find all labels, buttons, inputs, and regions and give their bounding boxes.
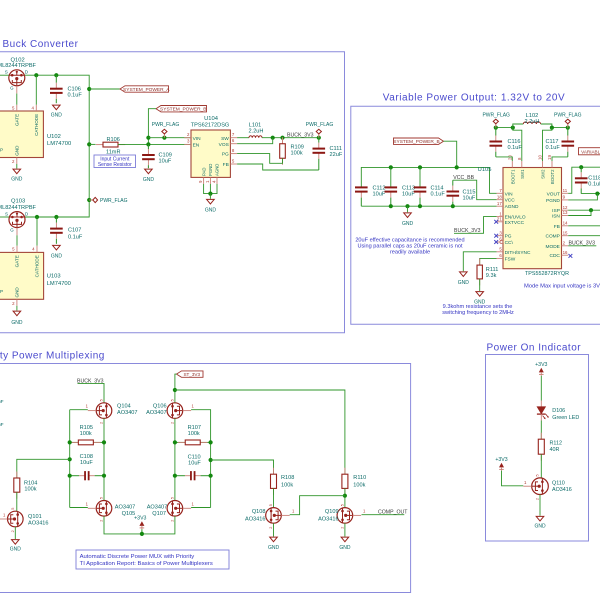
- svg-text:PWR_FLAG: PWR_FLAG: [554, 112, 582, 118]
- wire LED to R112: [540, 414, 542, 420]
- wire ISN jog: [568, 210, 591, 215]
- svg-text:100k: 100k: [188, 431, 200, 437]
- svg-text:13: 13: [563, 210, 568, 215]
- svg-text:L102: L102: [526, 113, 538, 119]
- ground DITH: [460, 272, 468, 277]
- svg-text:TI Application Report: Basics: TI Application Report: Basics of Power M…: [80, 561, 213, 567]
- svg-text:C116: C116: [508, 139, 521, 145]
- wire R106 to EN: [118, 143, 191, 145]
- resistor R112 40R: [540, 433, 542, 440]
- node gnd drop: [405, 204, 409, 208]
- svg-text:ISN: ISN: [552, 214, 561, 220]
- wire SW2 jog: [543, 128, 552, 161]
- svg-text:EXTVCC: EXTVCC: [505, 220, 525, 226]
- svg-text:5: 5: [171, 399, 175, 401]
- svg-text:Q102: Q102: [11, 57, 25, 63]
- capacitor C109: [147, 144, 149, 149]
- svg-text:+3V3: +3V3: [495, 457, 507, 463]
- ground R111: [476, 292, 484, 297]
- note Automatic Discrete Power MUX: [76, 550, 229, 569]
- svg-text:SYSTEM_POWER_A: SYSTEM_POWER_A: [123, 87, 170, 93]
- capacitor C110: [175, 475, 185, 477]
- svg-text:0.1uF: 0.1uF: [588, 181, 600, 187]
- svg-text:100k: 100k: [24, 486, 36, 492]
- wire R105 right: [93, 441, 104, 443]
- global label SYSTEM_POWER_B: [156, 106, 207, 112]
- wire node SW right: [552, 127, 568, 129]
- resistor R108 100k: [273, 468, 275, 475]
- svg-text:11mR: 11mR: [106, 149, 121, 155]
- node tap R108: [209, 458, 213, 462]
- svg-text:20uF effective capacitance is: 20uF effective capacitance is recommende…: [355, 237, 464, 243]
- wire COMP out: [568, 235, 600, 237]
- svg-text:C107: C107: [68, 228, 81, 234]
- svg-text:C118: C118: [588, 175, 600, 181]
- svg-text:5: 5: [341, 504, 345, 506]
- svg-text:17: 17: [497, 201, 502, 206]
- svg-text:2: 2: [269, 527, 273, 529]
- svg-text:2: 2: [100, 520, 104, 522]
- node ST_3V3: [173, 388, 177, 392]
- svg-text:S: S: [5, 212, 8, 217]
- svg-text:VIN: VIN: [505, 191, 514, 197]
- wire Q107 gate: [191, 507, 211, 509]
- ground Q110: [536, 516, 544, 521]
- wire to SYSTEM_POWER_A: [89, 88, 120, 90]
- wire Q105 gate: [70, 507, 88, 509]
- node C108 right: [102, 474, 106, 478]
- svg-text:C117: C117: [546, 139, 559, 145]
- resistor R111 9.3k: [479, 259, 481, 266]
- node C110 left: [173, 474, 177, 478]
- node C110 right: [209, 474, 213, 478]
- svg-text:GND: GND: [14, 145, 19, 156]
- svg-text:100k: 100k: [353, 483, 365, 489]
- transistor Q103: [9, 212, 25, 228]
- svg-text:12: 12: [563, 205, 568, 210]
- svg-text:uF: uF: [0, 399, 4, 405]
- no-connect EXTVCC: [494, 220, 498, 224]
- svg-text:VIN: VIN: [193, 136, 202, 142]
- svg-text:C110: C110: [188, 455, 201, 461]
- wire VOUT to out rail: [568, 167, 600, 193]
- svg-text:2.2uH: 2.2uH: [525, 119, 540, 125]
- svg-text:LM74700: LM74700: [47, 281, 71, 287]
- svg-text:0.1uF: 0.1uF: [508, 145, 523, 151]
- wire R112 to Q110: [540, 454, 542, 477]
- svg-text:Q107: Q107: [152, 511, 166, 517]
- resistor R105 100k: [71, 441, 78, 443]
- svg-text:Mode Max input voltage is 3V3: Mode Max input voltage is 3V3: [524, 284, 600, 290]
- wire input cap bus bottom: [361, 205, 496, 207]
- wire BUCK_3V3 to Q104: [78, 383, 105, 402]
- capacitor C118: [580, 167, 582, 172]
- wire Q108 source: [273, 523, 275, 536]
- svg-text:100k: 100k: [291, 151, 303, 157]
- svg-text:18: 18: [497, 194, 502, 199]
- wire Q106 gate: [191, 410, 211, 443]
- wire DITH/SYNC to gnd: [463, 252, 496, 271]
- svg-text:GND: GND: [11, 177, 23, 183]
- svg-text:2: 2: [11, 530, 15, 532]
- svg-text:Variable Power Output: 1.32V t: Variable Power Output: 1.32V to 20V: [383, 92, 566, 103]
- capacitor C117: [567, 128, 569, 136]
- wire R105 left: [70, 441, 79, 443]
- node Q103 drain C107: [54, 215, 58, 219]
- svg-text:PWR_FLAG: PWR_FLAG: [152, 122, 180, 128]
- wire Q104 gate: [70, 409, 88, 411]
- wire R108 to Q108: [273, 488, 275, 507]
- wire R104 to Q101: [16, 492, 18, 511]
- wire R107 right: [200, 441, 210, 443]
- svg-text:10uF: 10uF: [80, 460, 93, 466]
- svg-text:5: 5: [536, 474, 540, 476]
- svg-text:9.3kohm resistance sets the: 9.3kohm resistance sets the: [443, 304, 513, 310]
- resistor R107 100k: [178, 441, 185, 443]
- svg-text:FSW: FSW: [505, 256, 516, 262]
- resistor R110 100k: [344, 468, 346, 475]
- svg-text:ST_3V3: ST_3V3: [183, 372, 200, 377]
- global label SYSTEM_POWER_A: [120, 86, 169, 92]
- svg-text:5: 5: [100, 497, 104, 499]
- svg-text:0.1uF: 0.1uF: [546, 145, 561, 151]
- node ISP: [589, 208, 593, 212]
- svg-text:10uF: 10uF: [159, 159, 172, 165]
- svg-text:GND: GND: [458, 280, 470, 286]
- svg-text:R106: R106: [107, 137, 120, 143]
- svg-text:AO3416: AO3416: [552, 487, 572, 493]
- svg-text:FML8244TRPBF: FML8244TRPBF: [0, 63, 37, 69]
- svg-text:10uF: 10uF: [188, 461, 201, 467]
- svg-text:FB: FB: [554, 224, 560, 230]
- svg-text:AO3407: AO3407: [117, 410, 138, 416]
- wire node SW left: [496, 127, 513, 129]
- capacitor C114: [419, 167, 421, 186]
- svg-text:AO3407: AO3407: [147, 504, 168, 510]
- node R105 right: [102, 440, 106, 444]
- svg-text:Automatic Discrete Power MUX w: Automatic Discrete Power MUX with Priori…: [80, 554, 195, 560]
- ground C106: [53, 105, 61, 110]
- svg-text:FML8244TRPBF: FML8244TRPBF: [0, 205, 37, 211]
- svg-text:11: 11: [563, 188, 568, 193]
- node +3V3: [140, 532, 144, 536]
- svg-text:SYSTEM_POWER_B: SYSTEM_POWER_B: [393, 139, 439, 145]
- svg-text:C108: C108: [80, 454, 93, 460]
- svg-text:22uF: 22uF: [330, 152, 343, 158]
- svg-text:AO3407: AO3407: [115, 504, 136, 510]
- node pwr flag right: [566, 126, 570, 130]
- node C114 bottom: [418, 204, 422, 208]
- svg-text:BOOT1: BOOT1: [511, 169, 516, 184]
- svg-text:SW1: SW1: [520, 169, 525, 179]
- svg-text:GND: GND: [15, 287, 20, 298]
- svg-text:U102: U102: [47, 134, 61, 140]
- svg-text:GND: GND: [268, 545, 280, 551]
- power flag VIN: [163, 134, 165, 138]
- wire tap to R108: [211, 460, 274, 474]
- svg-text:9.3k: 9.3k: [486, 273, 497, 279]
- wire MODE: [568, 245, 596, 247]
- node VOS tap: [271, 136, 275, 140]
- wire common source: [104, 516, 175, 534]
- svg-text:GND: GND: [10, 547, 22, 553]
- wire R107 left: [175, 441, 185, 443]
- svg-text:CATHODE: CATHODE: [34, 114, 39, 136]
- svg-text:Q108: Q108: [252, 509, 266, 515]
- svg-text:GND: GND: [534, 524, 546, 530]
- svg-text:GND: GND: [402, 221, 414, 227]
- wire Q110 source: [539, 495, 541, 516]
- svg-text:EN: EN: [193, 143, 200, 149]
- svg-text:CC\: CC\: [505, 240, 514, 246]
- svg-text:DITH/SYNC: DITH/SYNC: [505, 250, 531, 256]
- svg-text:G: G: [10, 86, 14, 91]
- ground U104: [207, 199, 215, 204]
- wire drain rail left: [103, 418, 105, 500]
- svg-text:VOS: VOS: [219, 142, 229, 148]
- node R107 right: [209, 440, 213, 444]
- svg-text:R104: R104: [24, 480, 37, 486]
- svg-text:GND: GND: [205, 208, 217, 214]
- ground Q109: [341, 537, 349, 542]
- node C114 top: [418, 165, 422, 169]
- svg-text:Q110: Q110: [552, 480, 565, 486]
- IC U102 LM74700: [0, 111, 43, 158]
- node PWR_FLAG rail: [87, 198, 91, 202]
- wire +3V3 to LED: [540, 376, 542, 401]
- svg-text:19: 19: [547, 155, 552, 160]
- svg-text:AO3407: AO3407: [146, 410, 167, 416]
- wire C116 to BOOT1: [496, 157, 513, 161]
- svg-text:Sense Resistor: Sense Resistor: [98, 162, 132, 168]
- svg-text:switching frequency to 2MHz: switching frequency to 2MHz: [442, 310, 514, 316]
- svg-text:Q101: Q101: [28, 514, 42, 520]
- svg-text:AO3416: AO3416: [28, 520, 49, 526]
- node tap R104: [68, 457, 72, 461]
- svg-text:100k: 100k: [281, 483, 293, 489]
- svg-text:C112: C112: [373, 185, 386, 191]
- svg-text:GND: GND: [339, 545, 351, 551]
- svg-text:PWR_FLAG: PWR_FLAG: [482, 112, 510, 118]
- section Power Multiplexing box: [0, 364, 411, 593]
- node C118 top: [579, 165, 583, 169]
- wire ISP: [568, 209, 600, 211]
- svg-text:14: 14: [563, 221, 568, 226]
- power flag L102 left: [495, 124, 497, 128]
- wire Q103 gate: [16, 235, 18, 246]
- node C115 bottom: [451, 204, 455, 208]
- ground Q101: [12, 540, 20, 545]
- ground U103: [16, 306, 18, 311]
- svg-text:P: P: [0, 289, 3, 294]
- wire Q103 source: [0, 216, 9, 218]
- wire drain rail right: [174, 418, 176, 500]
- svg-text:ISP: ISP: [552, 208, 560, 214]
- svg-text:10uF: 10uF: [373, 191, 386, 197]
- svg-text:AGND: AGND: [215, 164, 220, 176]
- svg-text:0.1uF: 0.1uF: [68, 93, 83, 99]
- wire VOS feedback: [237, 138, 273, 144]
- IC U103 LM74700: [0, 252, 44, 299]
- svg-text:GATE: GATE: [15, 255, 20, 267]
- ground C107: [53, 245, 61, 250]
- capacitor C112: [360, 186, 362, 188]
- no-connect CDC: [569, 254, 573, 258]
- svg-text:C114: C114: [431, 185, 444, 191]
- svg-text:Priority Power Multiplexing: Priority Power Multiplexing: [0, 351, 105, 362]
- wire L101 to BUCK_3V3 node: [262, 137, 319, 139]
- node Q108 gate tap: [343, 494, 347, 498]
- capacitor C111 22uF: [318, 138, 320, 143]
- svg-text:AO3416: AO3416: [245, 517, 266, 523]
- wire ST_3V3 rail to R110: [175, 390, 345, 474]
- svg-text:Green LED: Green LED: [552, 415, 579, 421]
- wire Q102 gate: [16, 94, 18, 105]
- svg-text:COMP_OUT: COMP_OUT: [378, 509, 408, 515]
- svg-text:100k: 100k: [80, 431, 92, 437]
- svg-text:Power On Indicator: Power On Indicator: [487, 342, 582, 353]
- svg-text:GND: GND: [143, 177, 155, 183]
- wire Q102 source: [0, 74, 9, 76]
- node R106 tap: [87, 142, 91, 146]
- node R107 left: [173, 440, 177, 444]
- power flag BUCK_3V3: [318, 134, 320, 138]
- wire BUCK_3V3 to EN/UVLO: [454, 217, 497, 234]
- inductor L101 2.2uH: [249, 136, 262, 138]
- svg-text:PG: PG: [222, 152, 229, 158]
- svg-text:16: 16: [563, 250, 568, 255]
- node PWR_FLAG VIN: [162, 136, 166, 140]
- svg-text:+3V3: +3V3: [535, 362, 547, 368]
- power flag PWR_FLAG rail: [89, 199, 92, 201]
- svg-text:10: 10: [538, 155, 543, 160]
- svg-text:TPS552872RYQR: TPS552872RYQR: [525, 271, 569, 277]
- svg-text:2: 2: [536, 498, 540, 500]
- wire +3V3 to Q110 gate: [502, 471, 524, 486]
- svg-text:L101: L101: [249, 122, 261, 128]
- svg-text:S: S: [5, 70, 8, 75]
- svg-text:Q109: Q109: [325, 509, 339, 515]
- section Buck Converter box: [0, 52, 345, 333]
- wire U104 grounds: [204, 184, 217, 194]
- ground C109: [145, 169, 153, 174]
- capacitor C113: [390, 167, 392, 186]
- svg-text:Buck Converter: Buck Converter: [3, 39, 79, 50]
- svg-text:BOOT2: BOOT2: [550, 169, 555, 184]
- svg-text:TPS62172DSG: TPS62172DSG: [191, 122, 230, 128]
- node sysb bus: [455, 165, 459, 169]
- svg-text:R109: R109: [291, 145, 304, 151]
- wire R110 to Q109: [344, 488, 346, 507]
- svg-text:GND: GND: [51, 254, 63, 260]
- resistor R104 100k: [16, 472, 18, 479]
- svg-text:SW: SW: [221, 136, 229, 142]
- svg-text:P: P: [0, 148, 3, 153]
- wire SW to inductor: [237, 137, 249, 139]
- global label SYSTEM_POWER_B var: [394, 138, 444, 144]
- svg-text:AGND: AGND: [505, 204, 519, 210]
- svg-text:R105: R105: [80, 425, 93, 431]
- svg-text:U104: U104: [204, 116, 219, 122]
- wire SYSTEM_POWER_B to bus: [444, 141, 457, 167]
- wire gnd drop: [407, 206, 409, 212]
- svg-text:U105: U105: [478, 167, 492, 173]
- node drain-cathode: [34, 73, 38, 77]
- svg-text:2: 2: [171, 520, 175, 522]
- wire FB out: [568, 225, 600, 227]
- svg-text:PGND: PGND: [546, 198, 560, 204]
- wire SW1 jog: [513, 128, 522, 161]
- resistor R106 11mR: [96, 144, 103, 146]
- wire PGND: [568, 194, 597, 200]
- svg-text:5: 5: [11, 508, 15, 510]
- global label ST_3V3: [177, 371, 204, 377]
- capacitor C106: [55, 75, 57, 83]
- node U104 gnd: [208, 192, 212, 196]
- wire gate rail right: [210, 442, 212, 507]
- svg-text:FB: FB: [223, 162, 229, 168]
- svg-text:PG: PG: [505, 234, 512, 240]
- IC U105 TPS552872RYQR: [503, 168, 562, 269]
- svg-text:VCC: VCC: [505, 198, 516, 204]
- svg-text:SW2: SW2: [541, 169, 546, 179]
- wire R109 to PG: [237, 154, 282, 164]
- svg-text:CATHODE: CATHODE: [35, 255, 40, 277]
- resistor R109 100k: [282, 138, 284, 144]
- svg-text:R110: R110: [353, 475, 366, 481]
- svg-text:10uF: 10uF: [463, 195, 476, 201]
- node boot riser right: [550, 126, 554, 130]
- wire Q101 source: [14, 527, 16, 539]
- svg-text:0.1uF: 0.1uF: [68, 235, 83, 241]
- svg-text:40R: 40R: [550, 447, 560, 453]
- svg-text:VARIABLE: VARIABLE: [581, 150, 600, 155]
- node SYSTEM_POWER_A tap: [87, 87, 91, 91]
- node C113 bottom: [389, 204, 393, 208]
- inductor L102 2.2uH: [513, 124, 524, 128]
- svg-text:GND: GND: [11, 320, 23, 326]
- capacitor C108: [70, 475, 79, 477]
- node R109 top: [280, 136, 284, 140]
- node PGND riser: [595, 192, 599, 196]
- capacitor C116: [495, 128, 497, 136]
- svg-text:R108: R108: [281, 475, 294, 481]
- svg-text:readily available: readily available: [390, 249, 430, 255]
- svg-text:Q106: Q106: [153, 403, 167, 409]
- svg-text:MODE: MODE: [545, 244, 559, 250]
- svg-text:5: 5: [100, 399, 104, 401]
- no-connect CC: [494, 240, 498, 244]
- node PWR_FLAG BUCK_3V3: [317, 136, 321, 140]
- wire R111 to gnd: [479, 279, 481, 291]
- svg-text:EN/UVLO: EN/UVLO: [505, 215, 526, 221]
- node R105 left: [68, 440, 72, 444]
- transistor Q102: [9, 70, 25, 86]
- ground Q108: [270, 537, 278, 542]
- svg-text:SYSTEM_POWER_B: SYSTEM_POWER_B: [160, 107, 206, 113]
- svg-text:Using parallel caps as 20uF ce: Using parallel caps as 20uF ceramic is n…: [357, 243, 463, 249]
- svg-text:GATE: GATE: [14, 114, 19, 126]
- svg-text:5: 5: [171, 497, 175, 499]
- svg-text:G: G: [10, 228, 14, 233]
- node C108 left: [68, 474, 72, 478]
- node EN junction: [146, 142, 150, 146]
- wire Q108 gate: [290, 496, 345, 515]
- section Power On Indicator box: [486, 355, 589, 542]
- svg-text:Q105: Q105: [122, 511, 136, 517]
- note Input Current Sense Resistor: [94, 155, 136, 168]
- capacitor C115: [452, 180, 454, 185]
